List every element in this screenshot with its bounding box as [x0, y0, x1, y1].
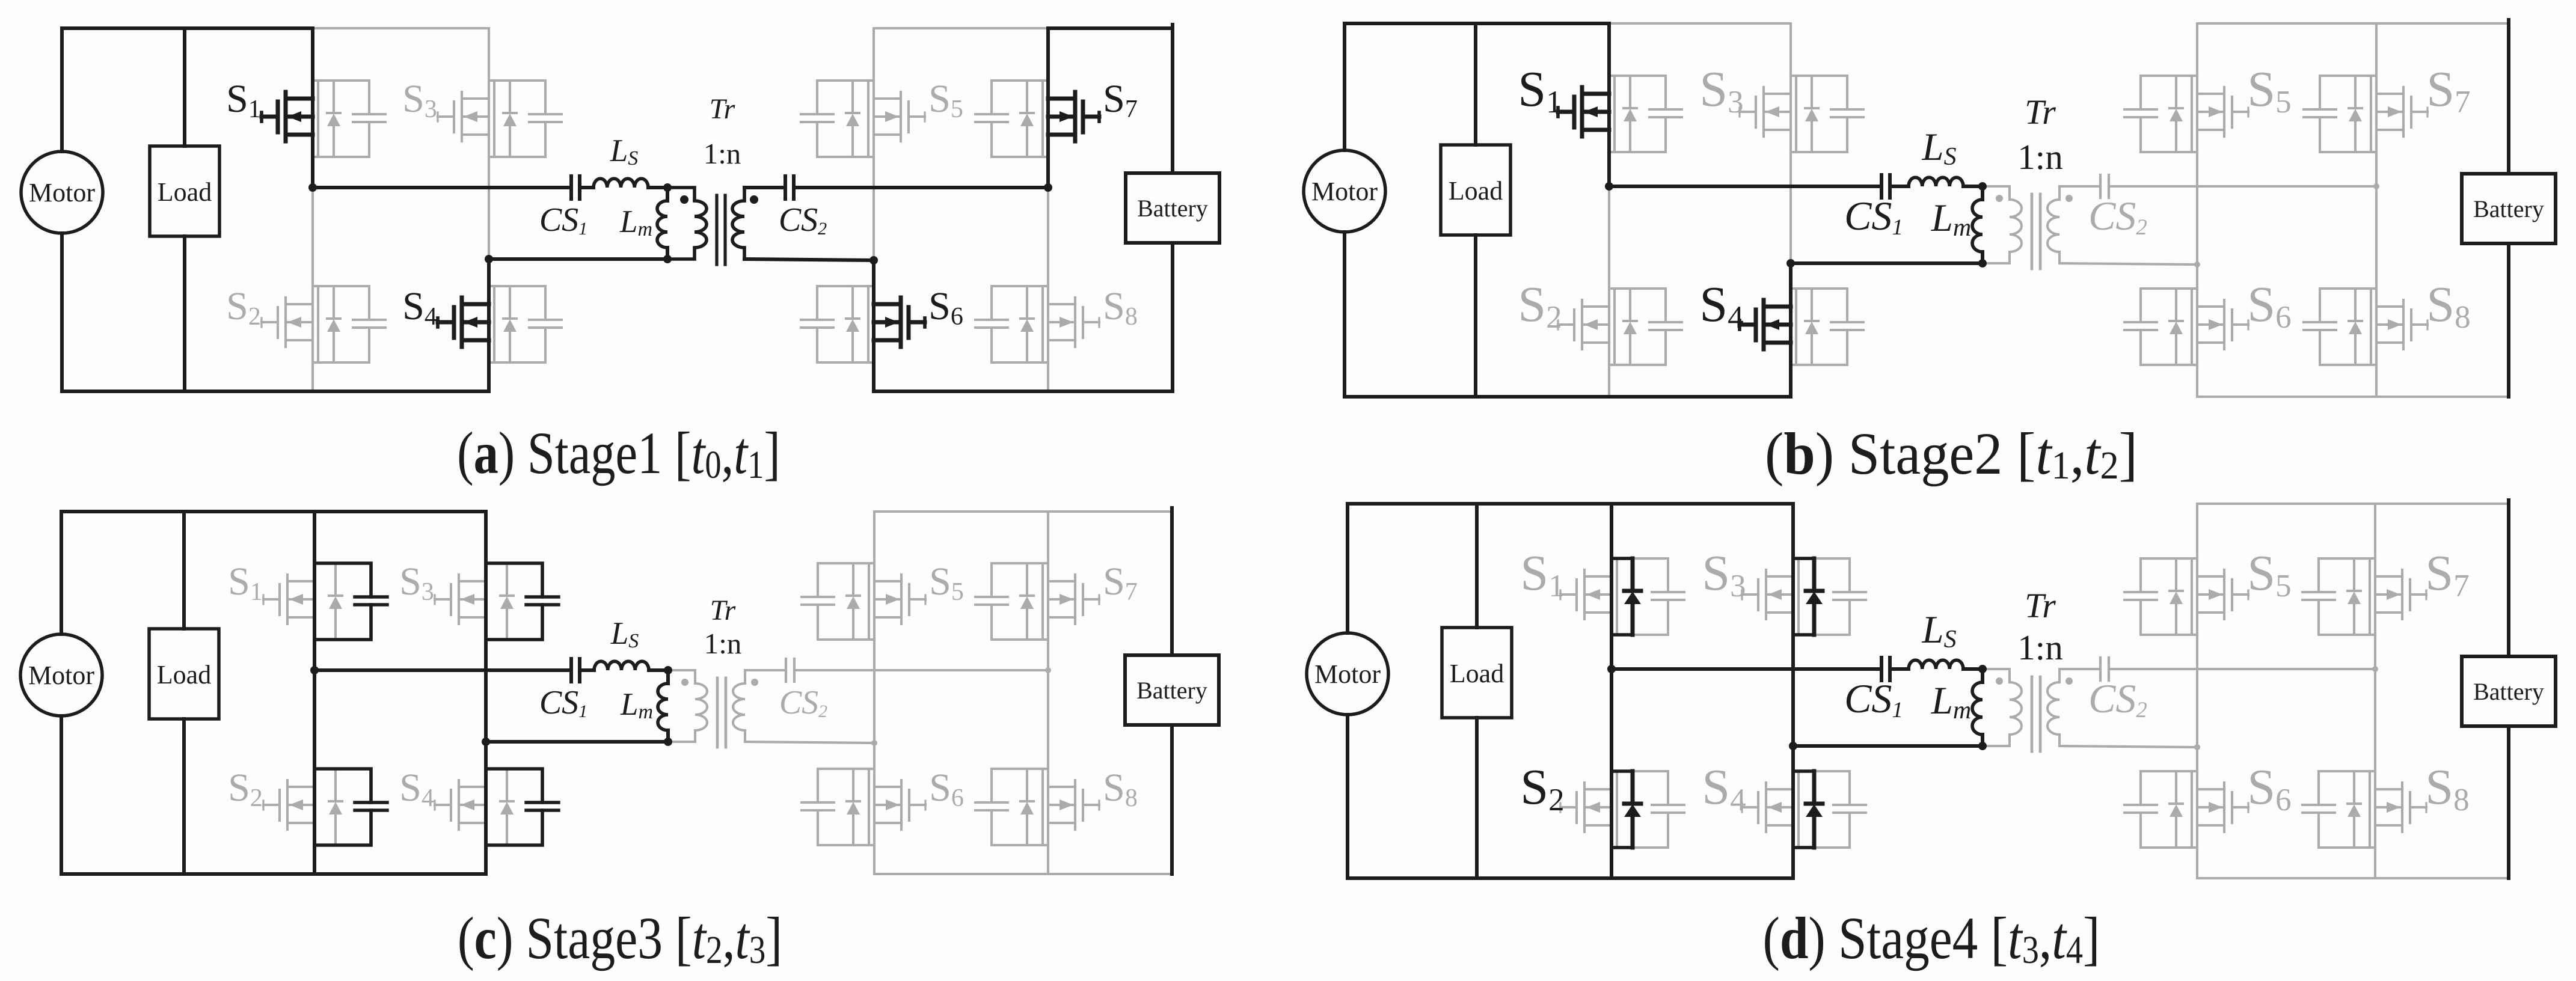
wire CS2 to S7 leg: [2109, 668, 2375, 670]
snubber capacitor cell of S6: [2124, 289, 2197, 365]
load box: [1442, 628, 1512, 718]
snubber capacitor cell of S1: [1612, 558, 1684, 635]
body diode of S1: [327, 81, 340, 157]
transistor S3 (MOSFET, inactive): [1740, 87, 1791, 136]
battery box: [1125, 655, 1219, 725]
transistor S5 (MOSFET, inactive): [2197, 87, 2248, 136]
winding primary (inactive): [1983, 186, 2010, 200]
transistor S1 (MOSFET, active): [262, 92, 313, 141]
snubber capacitor cell of S8: [975, 286, 1048, 362]
body diode of S6: [2170, 289, 2183, 365]
winding secondary (inactive): [2058, 186, 2061, 200]
wire secondary top to CS2: [2059, 668, 2100, 670]
node transformer top: [663, 183, 672, 192]
body diode of S2 (conducting): [1624, 771, 1641, 848]
transistor S2 (MOSFET, inactive): [262, 298, 313, 347]
wire node A to CS1: [313, 186, 571, 189]
wire top rail between legs (inactive): [313, 27, 489, 29]
motor M: [1304, 150, 1385, 232]
wire motor to top rail: [1346, 504, 1349, 633]
body diode of S4: [503, 286, 517, 362]
wire leg S5-S6 (inactive): [873, 512, 876, 874]
wire right rail upper: [2507, 500, 2510, 656]
wire right loop bottom rail (inactive): [2197, 877, 2509, 879]
body diode of S8: [1020, 769, 1034, 845]
transistor S1 (MOSFET, inactive): [263, 575, 314, 624]
transistor S3 (MOSFET, inactive): [435, 575, 486, 624]
body diode of S4: [500, 769, 514, 845]
wire leg S4 (active): [487, 259, 491, 391]
capacitor CS1: [571, 176, 580, 199]
node dot secondary polarity: [751, 679, 758, 686]
body diode of S2: [327, 286, 340, 362]
svg-text:1:n: 1:n: [2017, 137, 2062, 177]
snubber capacitor cell of S2: [1609, 289, 1682, 365]
capacitor CS2 (inactive): [2100, 175, 2109, 198]
snubber capacitor cell of S5: [802, 563, 874, 640]
body diode of S6: [846, 286, 859, 362]
snubber capacitor cell of S1 (charging): [314, 563, 387, 640]
node transformer bottom: [664, 738, 672, 746]
wire leg S7 (active): [1046, 28, 1050, 188]
winding primary (active): [667, 188, 695, 201]
wire secondary bottom to S6 leg: [744, 259, 874, 260]
transformer core: [2031, 677, 2034, 751]
wire load bottom: [182, 719, 186, 874]
snubber capacitor cell of S7: [2304, 76, 2376, 152]
wire Ls to node: [1963, 185, 1983, 188]
node dot secondary polarity: [750, 195, 758, 204]
body diode of S7: [2348, 558, 2361, 635]
svg-text:Motor: Motor: [29, 178, 95, 207]
inductor Ls: [1909, 660, 1963, 669]
transistor S4 (MOSFET, active): [1740, 300, 1791, 349]
transistor S1 (MOSFET, active): [1558, 87, 1609, 136]
transistor S7 (MOSFET, inactive): [2375, 570, 2426, 619]
node transformer bottom: [1978, 259, 1987, 267]
wire CS2 to S7 leg: [794, 669, 1048, 671]
capacitor CS1: [571, 659, 580, 682]
capacitor CS2 (inactive): [786, 659, 794, 682]
svg-text:Tr: Tr: [2025, 93, 2056, 132]
wire motor to bottom rail: [1346, 715, 1349, 878]
wire top rail between legs (inactive): [1609, 22, 1791, 25]
node A junction: [310, 666, 319, 674]
inductor Lm (magnetizing): [1972, 200, 1983, 252]
wire motor to bottom rail: [1343, 232, 1346, 397]
transistor S5 (MOSFET, inactive): [874, 575, 925, 624]
snubber capacitor cell of S3 (charging): [486, 563, 559, 640]
node A junction: [1605, 182, 1613, 191]
body diode of S7: [2349, 76, 2362, 152]
transistor S2 (MOSFET, inactive): [1560, 783, 1612, 832]
node B junction: [1789, 742, 1797, 750]
wire right loop top rail (inactive): [2197, 503, 2509, 505]
svg-text:Load: Load: [1449, 176, 1503, 206]
wire leg S1-S2 lower (inactive): [1608, 186, 1610, 397]
wire motor to top rail: [1343, 23, 1346, 150]
node dot primary polarity: [680, 195, 688, 204]
snubber capacitor cell of S4 (charging): [486, 769, 559, 845]
node B junction: [485, 255, 493, 263]
wire node B to transformer bottom: [489, 257, 667, 261]
body diode of S6: [847, 769, 860, 845]
inductor Ls: [1909, 177, 1963, 186]
load box: [150, 146, 219, 236]
snubber capacitor cell of S2 (charging): [314, 769, 387, 845]
transistor S5 (MOSFET, inactive): [874, 92, 925, 141]
wire motor to bottom rail: [60, 716, 63, 874]
wire motor to bottom rail: [60, 233, 64, 391]
transistor S2 (MOSFET, inactive): [263, 780, 314, 830]
panel (d) Stage4: [1307, 500, 2556, 972]
battery box: [2462, 656, 2556, 726]
wire right rail lower: [1170, 725, 1174, 874]
node transformer bottom: [1978, 742, 1987, 750]
wire top rail: [1348, 502, 1793, 506]
wire secondary top to CS2: [744, 186, 785, 189]
transistor S4 (MOSFET, inactive): [1742, 783, 1793, 832]
node dot primary polarity: [1996, 677, 2003, 685]
wire right loop top rail (active): [1048, 26, 1173, 30]
body diode of S8: [1020, 286, 1034, 362]
winding primary (inactive): [668, 670, 695, 683]
wire right rail upper: [1170, 508, 1174, 655]
inductor Lm (magnetizing): [658, 683, 668, 730]
battery box: [2462, 174, 2556, 243]
wire right rail lower: [2507, 726, 2510, 878]
transistor S3 (MOSFET, inactive): [1742, 570, 1793, 619]
snubber capacitor cell of S8: [2302, 771, 2375, 848]
wire leg S3-S4 upper (inactive): [1789, 23, 1792, 263]
node transformer top: [1978, 182, 1987, 191]
wire node B to transformer bottom: [1791, 261, 1983, 265]
transistor S7 (MOSFET, inactive): [2376, 87, 2427, 136]
wire leg S7-S8 (inactive): [1047, 512, 1049, 874]
snubber capacitor cell of S8: [975, 769, 1048, 845]
transistor S8 (MOSFET, inactive): [2376, 300, 2427, 349]
wire load top: [183, 28, 186, 146]
snubber capacitor cell of S6: [802, 769, 874, 845]
body diode of S5: [2170, 76, 2183, 152]
load box: [149, 629, 219, 719]
body diode of S6: [2170, 771, 2183, 848]
svg-text:Load: Load: [157, 660, 211, 689]
wire diode jog S1: [1612, 557, 1633, 560]
snubber capacitor cell of S4: [1793, 771, 1866, 848]
wire secondary bottom to S6 leg: [745, 742, 874, 743]
svg-text:Motor: Motor: [1314, 659, 1381, 689]
wire load bottom: [183, 236, 186, 391]
svg-text:Load: Load: [1450, 659, 1504, 688]
svg-text:1:n: 1:n: [704, 137, 741, 170]
wire motor to top rail: [60, 28, 64, 151]
transistor S4 (MOSFET, active): [438, 298, 489, 347]
wire load top: [1475, 504, 1479, 628]
wire CS2 to S7 leg: [794, 186, 1048, 189]
node transformer top: [1978, 665, 1987, 673]
snubber capacitor cell of S1: [313, 81, 385, 157]
caption (a): [457, 420, 780, 487]
wire node A to CS1: [314, 668, 571, 672]
body diode of S4 (conducting): [1806, 771, 1823, 848]
wire right loop top rail (inactive): [2197, 22, 2509, 25]
wire diode jog S2: [1612, 769, 1633, 773]
load box: [1441, 145, 1510, 235]
inductor Lm (magnetizing): [657, 201, 667, 248]
node secondary bottom at S6 leg: [2194, 744, 2200, 750]
snubber capacitor cell of S5: [801, 81, 874, 157]
wire leg S6 (active): [872, 260, 876, 391]
wire secondary top to CS2: [2059, 185, 2100, 188]
transistor S3 (MOSFET, inactive): [438, 92, 489, 141]
wire CS1 to Ls: [1890, 667, 1909, 671]
node transformer top: [664, 666, 672, 674]
wire bottom rail: [1348, 876, 1793, 880]
svg-text:1:n: 1:n: [2017, 628, 2062, 667]
snubber capacitor cell of S2: [1612, 771, 1684, 848]
snubber capacitor cell of S5: [2124, 76, 2197, 152]
body diode of S8: [2348, 771, 2361, 848]
svg-text:Battery: Battery: [2473, 678, 2544, 705]
inductor Ls: [594, 661, 649, 670]
body diode of S3: [1805, 76, 1818, 152]
snubber capacitor cell of S8: [2304, 289, 2376, 365]
wire leg S1 (active): [311, 28, 314, 188]
wire motor to top rail: [60, 512, 63, 634]
transistor S6 (MOSFET, inactive): [874, 780, 925, 830]
transformer core: [2031, 194, 2034, 269]
caption (d): [1763, 905, 2100, 972]
node B junction: [1786, 259, 1795, 267]
node dot primary polarity: [1996, 195, 2003, 202]
wire top rail: [61, 510, 486, 513]
body diode of S5: [847, 563, 860, 640]
wire CS1 to Ls: [580, 186, 593, 189]
winding secondary (active): [743, 188, 746, 201]
snubber capacitor cell of S3: [1791, 76, 1863, 152]
svg-text:(a) Stage1 [t0,t1]: (a) Stage1 [t0,t1]: [457, 420, 780, 487]
node secondary top at S7 leg: [2372, 666, 2378, 672]
inductor Ls: [593, 179, 648, 188]
capacitor CS2: [785, 176, 794, 199]
motor M: [20, 634, 102, 716]
wire top rail: [1345, 22, 1609, 25]
wire Ls to node: [1963, 667, 1983, 671]
svg-text:Tr: Tr: [710, 594, 736, 626]
transistor S6 (MOSFET, inactive): [2197, 300, 2248, 349]
body diode of S1: [329, 563, 342, 640]
svg-text:Battery: Battery: [1136, 677, 1207, 704]
snubber capacitor cell of S1: [1609, 76, 1682, 152]
caption (b): [1765, 421, 2138, 487]
transistor S6 (MOSFET, active): [874, 298, 925, 347]
svg-text:(b) Stage2 [t1,t2]: (b) Stage2 [t1,t2]: [1765, 421, 2138, 487]
wire load top: [1474, 23, 1477, 145]
body diode of S1: [1624, 76, 1637, 152]
node secondary bottom at S6 leg: [2194, 261, 2200, 267]
snubber capacitor cell of S7: [975, 563, 1048, 640]
battery box: [1126, 173, 1219, 243]
wire right rail lower: [1171, 243, 1174, 391]
capacitor CS2 (inactive): [2100, 658, 2109, 680]
wire Ls to node: [648, 186, 667, 189]
svg-text:Load: Load: [158, 177, 212, 207]
svg-text:Tr: Tr: [710, 93, 735, 125]
wire secondary top to CS2: [745, 669, 786, 671]
transistor S5 (MOSFET, inactive): [2197, 570, 2248, 619]
node B junction: [482, 738, 490, 746]
wire node A to CS1: [1609, 185, 1881, 188]
wire Ls to node: [649, 668, 668, 672]
transistor S8 (MOSFET, inactive): [2375, 783, 2426, 832]
svg-text:(c) Stage3 [t2,t3]: (c) Stage3 [t2,t3]: [458, 905, 782, 972]
body diode of S3 (conducting): [1806, 558, 1823, 635]
node secondary top at S7 leg: [1045, 667, 1051, 673]
body diode of S7: [1020, 81, 1034, 157]
node A junction: [308, 183, 317, 192]
wire load bottom: [1475, 718, 1479, 878]
wire leg S3-S4 upper (inactive): [488, 28, 490, 259]
wire right rail lower: [2507, 243, 2510, 397]
snubber capacitor cell of S2: [313, 286, 385, 362]
transistor S7 (MOSFET, active): [1048, 92, 1099, 141]
wire leg S5-S6 (inactive): [2196, 504, 2198, 878]
wire CS2 to S7 leg: [2109, 185, 2376, 188]
wire right rail upper: [2507, 20, 2510, 174]
wire leg S4 (active): [1789, 263, 1792, 397]
wire top rail S5-S7 (inactive): [874, 27, 1048, 29]
capacitor CS1: [1881, 658, 1890, 680]
transistor S2 (MOSFET, inactive): [1558, 300, 1609, 349]
body diode of S8: [2349, 289, 2362, 365]
capacitor CS1: [1881, 175, 1890, 198]
svg-text:1:n: 1:n: [704, 627, 742, 660]
body diode of S4: [1805, 289, 1818, 365]
svg-text:(d) Stage4 [t3,t4]: (d) Stage4 [t3,t4]: [1763, 905, 2100, 972]
node secondary top at S7 leg: [1044, 183, 1052, 192]
wire leg S5-S6 (inactive): [2196, 23, 2198, 397]
wire secondary bottom to S6 leg: [2059, 263, 2197, 264]
body diode of S2: [329, 769, 342, 845]
svg-text:Motor: Motor: [1311, 177, 1378, 206]
wire diode jog S3: [1793, 557, 1814, 560]
panel (a) Stage1: [21, 25, 1219, 487]
body diode of S1 (conducting): [1624, 558, 1641, 635]
transistor S7 (MOSFET, inactive): [1048, 575, 1099, 624]
node secondary bottom at S6 leg: [871, 740, 877, 746]
wire secondary bottom to S6 leg: [2059, 746, 2197, 747]
winding primary (inactive): [1983, 669, 2010, 682]
wire leg S3-S4 (active): [484, 512, 488, 874]
snubber capacitor cell of S7: [975, 81, 1048, 157]
wire load bottom: [1474, 235, 1477, 397]
snubber capacitor cell of S6: [2124, 771, 2197, 848]
body diode of S2: [1624, 289, 1637, 365]
body diode of S7: [1020, 563, 1034, 640]
wire leg S8 lower (inactive): [1047, 188, 1049, 391]
wire CS1 to Ls: [580, 668, 594, 672]
winding secondary (inactive): [744, 670, 746, 683]
node A junction: [1607, 665, 1616, 673]
transformer core: [716, 678, 719, 747]
body diode of S3: [503, 81, 517, 157]
svg-text:Battery: Battery: [2473, 195, 2544, 222]
wire bottom rail: [62, 390, 489, 393]
node transformer bottom: [663, 255, 672, 263]
snubber capacitor cell of S4: [489, 286, 562, 362]
svg-text:Tr: Tr: [2025, 586, 2056, 625]
node secondary top at S7 leg: [2373, 183, 2379, 189]
motor M: [21, 151, 103, 233]
wire node B to transformer bottom: [486, 740, 668, 744]
wire leg S1-S2 lower (inactive): [311, 188, 314, 391]
panel (b) Stage2: [1304, 20, 2556, 487]
wire top rail: [62, 26, 313, 30]
wire node B to transformer bottom: [1793, 744, 1983, 748]
wire diode jog S4: [1793, 769, 1814, 773]
wire CS1 to Ls: [1890, 185, 1909, 188]
wire node A to CS1: [1612, 667, 1881, 671]
wire right loop bottom rail (inactive): [2197, 396, 2509, 398]
snubber capacitor cell of S3: [489, 81, 562, 157]
body diode of S5: [2170, 558, 2183, 635]
body diode of S5: [846, 81, 859, 157]
wire leg S7-S8 (inactive): [2374, 504, 2376, 878]
motor M: [1307, 633, 1388, 715]
snubber capacitor cell of S4: [1791, 289, 1863, 365]
winding secondary (inactive): [2058, 669, 2061, 682]
snubber capacitor cell of S3: [1793, 558, 1866, 635]
inductor Lm (magnetizing): [1972, 682, 1983, 735]
body diode of S3: [500, 563, 514, 640]
wire bottom rail: [1345, 395, 1791, 399]
transistor S8 (MOSFET, inactive): [1048, 780, 1099, 830]
node dot secondary polarity: [2065, 677, 2073, 685]
snubber capacitor cell of S7: [2302, 558, 2375, 635]
transistor S1 (MOSFET, inactive): [1560, 570, 1612, 619]
transistor S8 (MOSFET, inactive): [1048, 298, 1099, 347]
wire right loop bottom rail (inactive): [874, 873, 1172, 875]
transistor S6 (MOSFET, inactive): [2197, 783, 2248, 832]
transformer core Tr: [715, 195, 718, 264]
node dot secondary polarity: [2065, 195, 2073, 202]
node dot primary polarity: [681, 679, 688, 686]
wire load top: [182, 512, 186, 629]
node secondary bottom at S6 leg: [869, 256, 878, 264]
svg-text:Motor: Motor: [28, 661, 94, 690]
wire leg S5 upper (inactive): [872, 28, 875, 260]
wire right rail upper: [1171, 25, 1174, 173]
wire right loop top rail (inactive): [874, 510, 1172, 513]
wire right loop bottom rail (active): [874, 390, 1173, 393]
caption (c): [458, 905, 782, 972]
snubber capacitor cell of S5: [2124, 558, 2197, 635]
wire bottom rail: [61, 872, 486, 876]
transistor S4 (MOSFET, inactive): [435, 780, 486, 830]
wire leg S1 (active): [1607, 23, 1611, 186]
wire leg S3-S4 (active): [1791, 504, 1795, 878]
snubber capacitor cell of S6: [801, 286, 874, 362]
wire leg S1-S2 (active): [313, 512, 316, 874]
svg-text:Battery: Battery: [1137, 195, 1208, 222]
wire leg S1-S2 (active): [1610, 504, 1613, 878]
wire leg S7-S8 (inactive): [2375, 23, 2378, 397]
panel (c) Stage3: [20, 508, 1219, 972]
